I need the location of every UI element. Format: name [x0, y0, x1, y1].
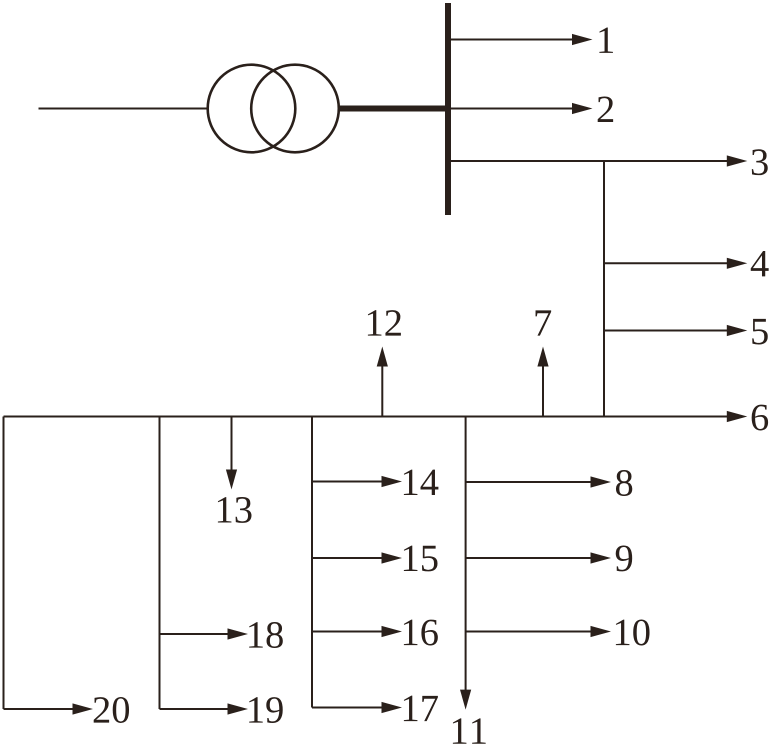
label 6 — [752, 405, 768, 431]
load 7 arrow stem (up) — [542, 366, 544, 417]
label 14 — [404, 470, 439, 495]
label 20 — [94, 697, 129, 723]
transformer T1 primary winding — [208, 65, 296, 153]
feeder 10 arrowhead — [591, 626, 612, 637]
label 4 — [751, 251, 769, 276]
load 13 arrow stem (down) — [231, 417, 233, 471]
label 19 — [249, 697, 283, 723]
feeder 1 wire — [451, 39, 573, 41]
feeder 10 wire — [466, 631, 591, 633]
label 2 — [598, 97, 613, 122]
feeder 18 wire — [160, 633, 230, 635]
feeder 14 wire — [312, 481, 383, 483]
label 15 — [404, 546, 438, 572]
label 16 — [404, 620, 438, 646]
feeder 15 wire — [312, 557, 383, 559]
feeder 9 arrowhead — [591, 552, 612, 563]
wire: left vertical drop (to feeder 20) — [3, 417, 5, 710]
feeder 20 arrowhead — [73, 703, 94, 714]
feeder 3 arrowhead — [727, 155, 748, 166]
label 1 — [599, 27, 613, 52]
label 17 — [404, 696, 438, 721]
feeder 6 arrowhead — [727, 411, 748, 422]
feeder 9 wire — [466, 557, 591, 559]
feeder 2 arrowhead — [572, 103, 593, 114]
load 12 arrow stem (up) — [381, 366, 383, 417]
transformer T1 secondary winding — [251, 65, 339, 153]
feeder 18 arrowhead — [228, 628, 249, 639]
feeder 2 wire — [451, 108, 573, 110]
feeder 19 arrowhead — [228, 703, 249, 714]
label 10 — [616, 620, 650, 646]
feeder 17 arrowhead — [382, 702, 403, 713]
bus 6 wire (long horizontal) — [4, 416, 729, 418]
feeder 8 wire — [466, 481, 591, 483]
label 8 — [616, 470, 632, 496]
label 18 — [249, 622, 283, 648]
label 7 — [536, 310, 552, 335]
wire: fourth vertical drop (feeders 8-10, load 11) — [465, 417, 467, 691]
wire: transformer to busbar (thick) — [338, 106, 450, 112]
feeder 5 wire — [604, 330, 728, 332]
label 9 — [616, 546, 632, 572]
label 3 — [752, 149, 768, 175]
feeder 8 arrowhead — [591, 476, 612, 487]
feeder 20 wire — [4, 708, 75, 710]
busbar — [445, 3, 451, 215]
label 12 — [368, 310, 401, 335]
label 11 — [453, 718, 486, 743]
feeder 16 arrowhead — [382, 626, 403, 637]
feeder 5 arrowhead — [727, 325, 748, 336]
load 7 arrowhead — [537, 347, 548, 367]
feeder 4 wire — [604, 262, 728, 264]
feeder 19 wire — [160, 708, 230, 710]
feeder 17 wire — [312, 707, 383, 709]
wire: third vertical drop (feeders 14-17) — [311, 417, 313, 708]
wire: vertical drop from feeder 3 — [603, 161, 605, 417]
feeder 14 arrowhead — [382, 476, 403, 487]
wire: HV source feed — [39, 108, 209, 110]
load 13 arrowhead — [226, 470, 237, 490]
label 13 — [218, 497, 252, 523]
feeder 1 arrowhead — [572, 34, 593, 45]
load 12 arrowhead — [377, 347, 388, 367]
wire: second vertical drop (feeders 18,19) — [159, 417, 161, 710]
label 5 — [752, 319, 768, 345]
feeder 15 arrowhead — [382, 552, 403, 563]
feeder 4 arrowhead — [727, 258, 748, 269]
feeder 3 wire — [451, 160, 728, 162]
feeder 16 wire — [312, 631, 383, 633]
load 11 arrowhead (down) — [460, 690, 471, 710]
